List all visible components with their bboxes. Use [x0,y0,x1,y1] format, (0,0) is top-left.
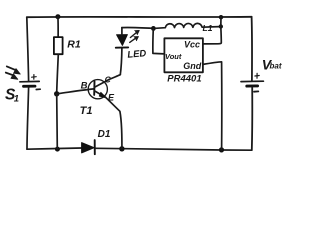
svg-text:T1: T1 [80,105,93,117]
junction dot base node [54,91,59,96]
diode D1 cathode bar [94,140,96,154]
label - at S1 [36,88,40,90]
svg-text:bat: bat [270,62,282,71]
svg-text:PR4401: PR4401 [167,74,201,85]
label + at S1 [32,75,37,80]
LED cathode bar [116,46,128,48]
transistor T1 base bar [93,81,95,95]
wire left rail lower (S1 to bottom) [27,88,29,149]
svg-text:B: B [81,81,88,92]
wire Gnd pin to bottom rail [203,62,222,150]
svg-text:1: 1 [14,93,19,104]
wire bottom rail left segment [27,148,82,149]
svg-text:D1: D1 [98,129,111,140]
junction dot bottom emitter branch [119,146,124,151]
wire R1 to base node [57,54,59,93]
wire left rail upper (to S1) [27,17,29,81]
junction dot coil/Vcc node [219,24,223,28]
svg-text:Vcc: Vcc [184,39,200,49]
battery Vbat plate + (long) [241,80,263,82]
svg-text:Gnd: Gnd [183,61,201,71]
resistor R1 body [54,37,63,54]
transistor T1 circle [88,80,107,99]
wire collector to LED cathode [120,48,122,74]
wire top rail to coil node [220,17,222,26]
transistor T1 emitter segment with arrow [94,91,105,97]
junction dot LED/Vout/L1 node [151,26,156,31]
junction dot top-left node [55,14,60,19]
wire base to transistor [59,89,94,94]
svg-text:C: C [105,75,112,85]
wire top rail [27,16,252,18]
wire bottom rail right segment [96,148,252,150]
diode D1 triangle [82,143,95,153]
svg-text:L1: L1 [203,23,213,33]
svg-text:Vout: Vout [165,52,182,61]
wire right rail upper (top rail to battery) [251,17,253,81]
wire LED anode to node [122,26,153,29]
junction dot top-right node [219,15,223,19]
solar cell S1 plate + [20,80,39,82]
LED emission arrow 2 [130,37,139,43]
battery Vbat plate - (thick) [247,84,258,87]
svg-text:LED: LED [127,48,147,61]
wire emitter to bottom rail [106,97,122,148]
inductor L1 coil [156,23,220,28]
junction dot bottom gnd branch [219,147,224,152]
solar cell S1 light arrow 1 [7,66,20,74]
IC U1 PR4401 box [164,38,203,72]
label + at battery [255,73,259,78]
LED emission arrow 1 [130,30,139,37]
LED triangle [117,35,128,46]
svg-text:R1: R1 [67,38,81,50]
label - at battery [254,90,258,92]
LED anode stem [121,28,123,35]
wire base node to bottom rail [56,94,59,149]
solar cell S1 light arrow 2 [6,73,18,80]
junction dot bottom R1 branch [55,147,60,152]
solar cell S1 plate - (thick) [24,85,36,88]
wire R1 branch from top rail [57,17,59,38]
transistor T1 collector segment [95,75,121,88]
wire right rail lower (battery to bottom rail) [251,88,253,151]
wire node to Vout pin [153,28,165,54]
wire coil node to Vcc pin [203,27,221,44]
